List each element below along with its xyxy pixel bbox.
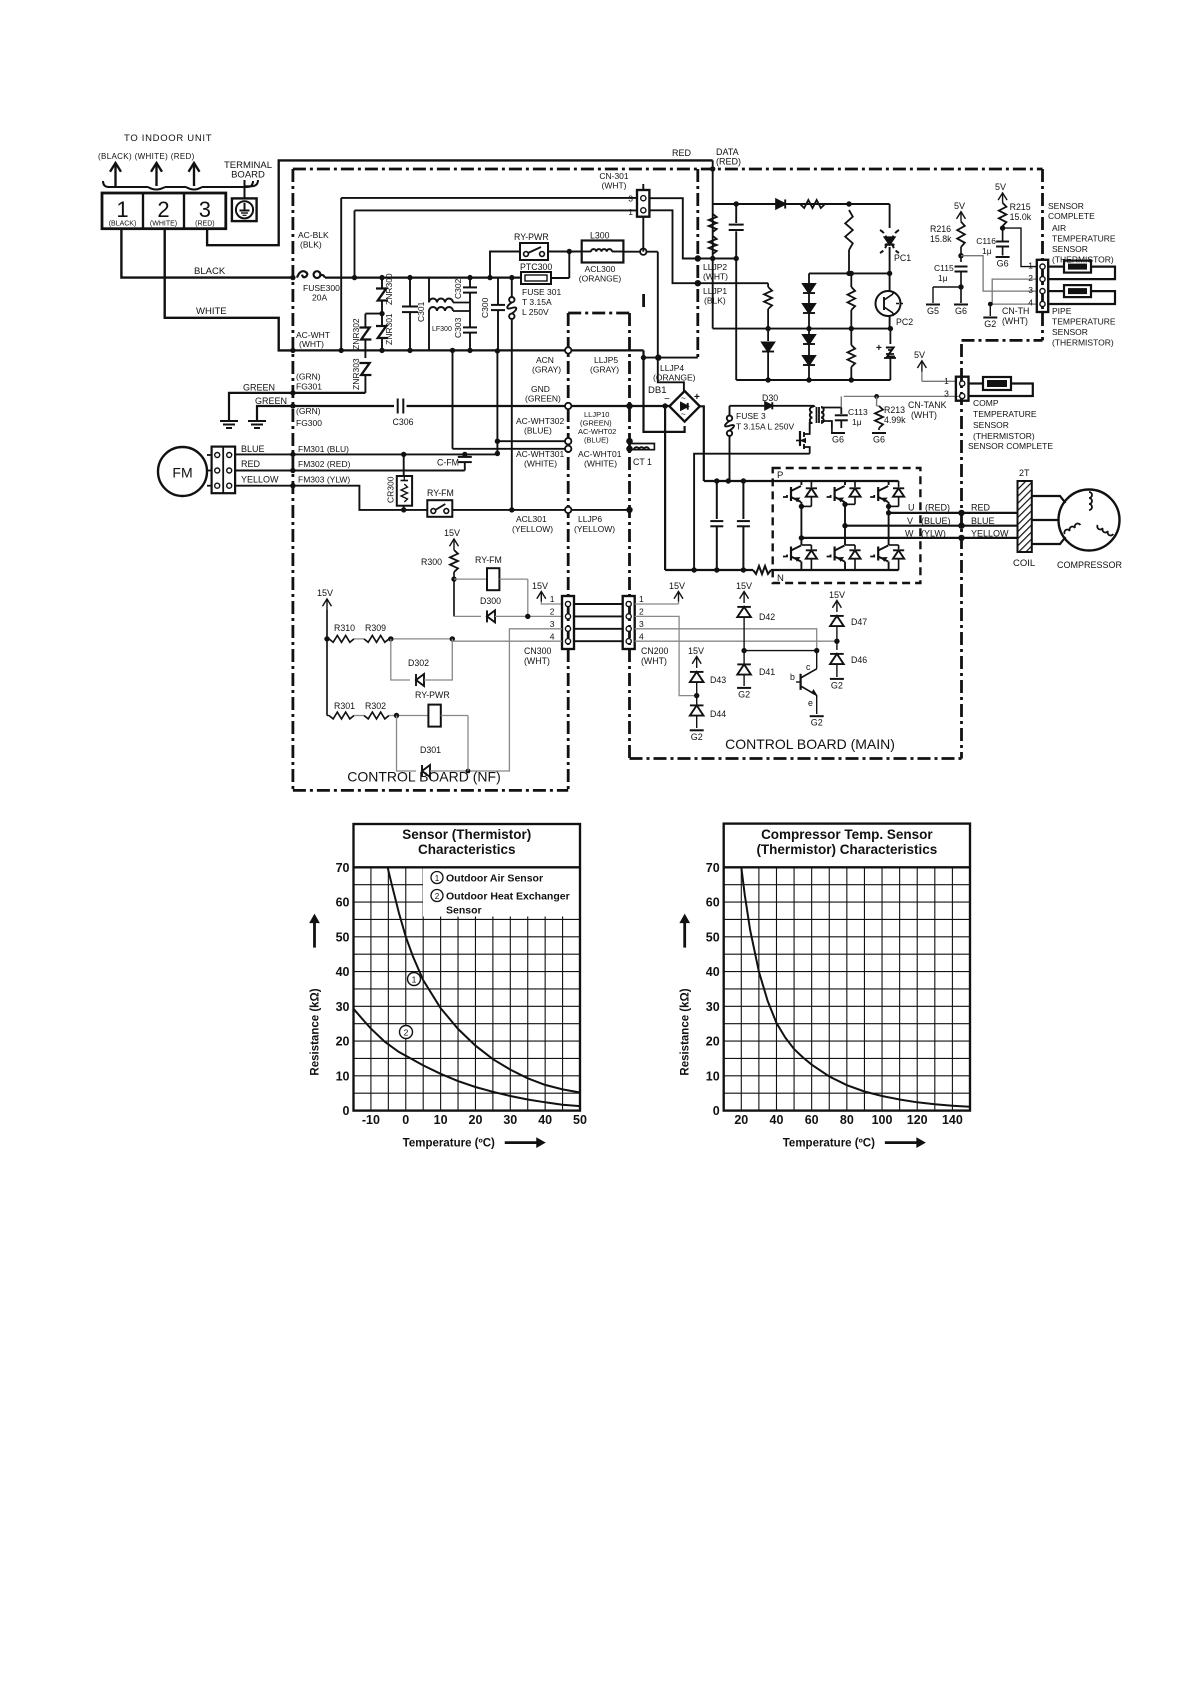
svg-text:C302: C302: [453, 278, 463, 299]
svg-text:Outdoor Air Sensor: Outdoor Air Sensor: [446, 873, 543, 885]
svg-text:C303: C303: [453, 317, 463, 338]
svg-text:GREEN: GREEN: [243, 383, 275, 393]
connector CN200: [623, 596, 635, 649]
mid PS bus: [713, 328, 891, 330]
bus P: [704, 480, 773, 482]
svg-text:+: +: [876, 343, 882, 354]
svg-text:FUSE300: FUSE300: [303, 283, 340, 293]
wire C113 to CN-TANK: [844, 395, 963, 397]
svg-text:2: 2: [639, 607, 644, 617]
svg-text:TEMPERATURE: TEMPERATURE: [1052, 317, 1116, 327]
control board NF border right: [567, 313, 570, 790]
capacitor C301: [409, 278, 411, 306]
svg-text:LLJP2: LLJP2: [703, 262, 727, 272]
svg-text:C115: C115: [934, 263, 954, 273]
svg-text:TO INDOOR UNIT: TO INDOOR UNIT: [124, 133, 212, 144]
svg-text:(ORANGE): (ORANGE): [579, 274, 622, 284]
wire AC-WHT bus: [293, 349, 568, 351]
svg-text:AC-WHT302: AC-WHT302: [516, 416, 564, 426]
svg-text:15V: 15V: [829, 590, 845, 600]
svg-text:D300: D300: [480, 596, 501, 606]
capacitor PS: [735, 204, 737, 223]
wire DB1 plus to P bus: [700, 406, 704, 481]
svg-text:RED: RED: [241, 459, 261, 469]
svg-text:60: 60: [805, 1113, 819, 1127]
wire BLACK bus after fuse: [325, 277, 521, 279]
gnd G2 transistor: [810, 715, 824, 717]
varistor ZNR302: [365, 313, 382, 315]
diode D44: [696, 696, 698, 705]
svg-text:Temperature (ºC): Temperature (ºC): [403, 1138, 495, 1150]
wire GND GREEN to LLJP10: [407, 405, 569, 407]
svg-text:40: 40: [336, 965, 350, 979]
svg-text:CN-TANK: CN-TANK: [908, 400, 947, 410]
wire R309 to CN300 pin4: [452, 639, 562, 641]
svg-text:D44: D44: [710, 709, 726, 719]
svg-text:1: 1: [628, 207, 633, 217]
svg-text:SENSOR: SENSOR: [1052, 327, 1088, 337]
svg-text:LLJP1: LLJP1: [703, 286, 727, 296]
svg-text:(THERMISTOR): (THERMISTOR): [1052, 255, 1114, 265]
svg-text:C300: C300: [480, 297, 490, 318]
wire GND to DB1: [568, 405, 670, 407]
capacitor C300: [497, 278, 499, 304]
inverter module box: [773, 468, 921, 583]
svg-text:1: 1: [116, 197, 128, 222]
svg-text:10: 10: [434, 1113, 448, 1127]
earth ground 1: [220, 420, 238, 422]
svg-text:BLUE: BLUE: [971, 516, 995, 526]
svg-text:100: 100: [872, 1113, 893, 1127]
svg-text:(WHT): (WHT): [299, 339, 324, 349]
svg-text:1: 1: [1028, 261, 1033, 271]
svg-text:PC1: PC1: [894, 253, 911, 263]
svg-text:(YLW): (YLW): [921, 528, 946, 538]
svg-text:D302: D302: [408, 658, 429, 668]
svg-text:G6: G6: [997, 259, 1009, 269]
pipe thermistor: [1048, 290, 1064, 292]
svg-text:RY-PWR: RY-PWR: [514, 232, 549, 242]
svg-text:2T: 2T: [1019, 468, 1030, 478]
svg-text:RY-PWR: RY-PWR: [415, 690, 450, 700]
svg-text:(WHT): (WHT): [703, 272, 728, 282]
svg-text:120: 120: [907, 1113, 928, 1127]
sensor box bottom border: [962, 339, 1043, 342]
diode LLJP1 chain: [762, 343, 774, 352]
svg-text:e: e: [808, 698, 813, 708]
svg-text:R309: R309: [365, 623, 386, 633]
graph frame: [724, 824, 970, 1111]
svg-text:(Thermistor) Characteristics: (Thermistor) Characteristics: [756, 842, 937, 857]
svg-text:FM302 (RED): FM302 (RED): [298, 459, 351, 469]
gnd G2 D41: [737, 687, 751, 689]
svg-text:20A: 20A: [312, 293, 327, 303]
svg-text:20: 20: [336, 1035, 350, 1049]
svg-text:AC-WHT301: AC-WHT301: [516, 449, 564, 459]
svg-text:BLUE: BLUE: [241, 444, 265, 454]
svg-text:R300: R300: [421, 557, 442, 567]
svg-text:(BLUE): (BLUE): [524, 426, 552, 436]
bus N: [665, 569, 753, 571]
node GND-DB1: [626, 403, 632, 409]
wire mosfet source return: [694, 454, 810, 570]
optocoupler PC2: [889, 273, 891, 291]
svg-text:4.99k: 4.99k: [884, 415, 906, 425]
current transformer CT1: [626, 438, 632, 444]
svg-text:(BLK): (BLK): [704, 296, 726, 306]
svg-text:3: 3: [639, 619, 644, 629]
svg-text:1: 1: [435, 874, 440, 883]
border stub near ACL300: [642, 294, 645, 311]
svg-text:COMP: COMP: [973, 398, 999, 408]
wire CN-301 pin1 feed: [354, 210, 356, 277]
wire top PS loop: [713, 203, 890, 205]
control board NF border left: [291, 169, 294, 790]
gnd G6 under C115: [954, 304, 968, 306]
wire LLJP2 bus: [698, 258, 736, 260]
indoor unit arrow 3: [193, 163, 195, 186]
svg-text:CR300: CR300: [386, 476, 396, 503]
indoor unit arrow 1: [114, 163, 116, 186]
diode D46: [836, 641, 838, 650]
wire L300 output to LLJP4: [623, 251, 657, 253]
resistor x849 upper: [845, 210, 853, 250]
svg-text:(YELLOW): (YELLOW): [574, 524, 615, 534]
svg-text:CN200: CN200: [641, 646, 668, 656]
IGBT W low: [877, 547, 879, 561]
inverter P rail: [773, 480, 899, 482]
svg-text:(GRN): (GRN): [296, 406, 321, 416]
svg-text:1: 1: [944, 376, 949, 386]
varistor ZNR303: [359, 363, 371, 375]
fuse FUSE3: [727, 416, 732, 421]
diode U low: [810, 545, 812, 549]
svg-text:PC2: PC2: [896, 317, 913, 327]
control board NF border bottom: [293, 789, 568, 792]
svg-text:LLJP6: LLJP6: [578, 514, 602, 524]
svg-text:3: 3: [1028, 285, 1033, 295]
svg-text:C306: C306: [392, 417, 413, 427]
wire ACL301 LLJP6 yellow: [452, 509, 629, 511]
svg-text:60: 60: [336, 896, 350, 910]
svg-text:COMPLETE: COMPLETE: [1048, 211, 1095, 221]
control board MAIN border left: [628, 313, 631, 759]
svg-text:GREEN: GREEN: [255, 396, 287, 406]
svg-text:TEMPERATURE: TEMPERATURE: [973, 409, 1037, 419]
resistor shunt N: [753, 566, 771, 574]
svg-text:ACN: ACN: [536, 355, 554, 365]
graph frame: [354, 824, 581, 1111]
transformer T: [813, 406, 815, 407]
svg-text:(BLUE): (BLUE): [584, 436, 609, 445]
svg-text:2: 2: [404, 1028, 409, 1038]
svg-text:50: 50: [706, 930, 720, 944]
svg-text:15V: 15V: [736, 581, 752, 591]
svg-text:R216: R216: [930, 224, 951, 234]
svg-text:Compressor Temp. Sensor: Compressor Temp. Sensor: [761, 827, 933, 842]
svg-text:3: 3: [550, 619, 555, 629]
svg-text:140: 140: [942, 1113, 963, 1127]
svg-text:(BLACK) (WHITE) (RED): (BLACK) (WHITE) (RED): [98, 152, 195, 161]
svg-text:ACL300: ACL300: [585, 264, 616, 274]
svg-text:G6: G6: [873, 435, 885, 445]
svg-text:1: 1: [639, 594, 644, 604]
svg-text:2: 2: [435, 892, 440, 901]
svg-text:-10: -10: [362, 1113, 380, 1127]
svg-text:FUSE 301: FUSE 301: [522, 287, 561, 297]
IGBT W high: [888, 481, 890, 485]
svg-text:AIR: AIR: [1052, 223, 1066, 233]
svg-text:(WHT): (WHT): [524, 656, 550, 666]
diode D43: [696, 667, 698, 669]
svg-text:FUSE 3: FUSE 3: [736, 411, 766, 421]
gnd G5: [933, 286, 961, 288]
zener to bottom bus: [889, 329, 891, 344]
svg-text:(WHITE): (WHITE): [150, 221, 177, 228]
diode V high: [854, 481, 856, 487]
svg-text:AC-WHT01: AC-WHT01: [578, 449, 622, 459]
svg-text:(BLUE): (BLUE): [921, 516, 951, 526]
svg-text:ZNR303: ZNR303: [351, 358, 361, 390]
svg-text:(GRAY): (GRAY): [590, 365, 619, 375]
top border: [293, 168, 1043, 171]
svg-text:ZNR301: ZNR301: [384, 313, 394, 345]
svg-text:G2: G2: [984, 319, 996, 329]
bottom PS bus: [736, 379, 890, 381]
svg-text:~: ~: [681, 394, 686, 403]
svg-text:R301: R301: [334, 701, 355, 711]
gnd G2 D46: [830, 678, 844, 680]
svg-text:U: U: [908, 503, 915, 513]
svg-text:FM: FM: [172, 465, 192, 481]
diode V low: [854, 545, 856, 549]
svg-text:(BLK): (BLK): [300, 240, 322, 250]
svg-text:RED: RED: [971, 503, 991, 513]
earth ground 2: [248, 420, 266, 422]
svg-text:YELLOW: YELLOW: [241, 475, 279, 485]
graph y axis title: [683, 923, 686, 948]
svg-text:T 3.15A L 250V: T 3.15A L 250V: [736, 422, 794, 432]
svg-text:10: 10: [336, 1069, 350, 1083]
wire CN-301 pin3 to LLJP2: [649, 198, 698, 258]
compressor motor: [1059, 490, 1120, 551]
svg-text:CONTROL BOARD (NF): CONTROL BOARD (NF): [347, 769, 500, 785]
wire LLJP1 to resistor: [698, 282, 768, 284]
svg-text:5V: 5V: [954, 201, 965, 211]
varistor ZNR301: [381, 314, 383, 326]
resistor PS top: [800, 200, 825, 208]
svg-text:1μ: 1μ: [938, 273, 948, 283]
svg-text:G2: G2: [831, 680, 843, 690]
svg-text:30: 30: [336, 1000, 350, 1014]
svg-text:Sensor (Thermistor): Sensor (Thermistor): [402, 827, 531, 842]
wire ACN to DB1: [644, 350, 685, 432]
resistor x851 lower: [850, 329, 852, 345]
jumper pads on MAIN border: [626, 403, 632, 409]
svg-text:0: 0: [402, 1113, 409, 1127]
svg-text:15.0k: 15.0k: [1010, 212, 1032, 222]
svg-text:15V: 15V: [317, 588, 333, 598]
svg-text:PTC300: PTC300: [520, 262, 552, 272]
svg-text:CN-301: CN-301: [599, 171, 629, 181]
svg-text:(BLACK): (BLACK): [109, 221, 137, 228]
svg-text:(WHT): (WHT): [601, 181, 626, 191]
svg-text:SENSOR: SENSOR: [1048, 201, 1084, 211]
svg-text:(GREEN): (GREEN): [525, 394, 561, 404]
diode in PS top: [776, 199, 785, 208]
svg-text:G2: G2: [811, 718, 823, 728]
svg-text:2: 2: [550, 607, 555, 617]
svg-text:(RED): (RED): [716, 157, 741, 167]
diode D41: [743, 651, 745, 664]
svg-text:G6: G6: [955, 306, 967, 316]
riser ACN to white wire: [452, 350, 454, 448]
svg-text:70: 70: [706, 861, 720, 875]
wire DATA RED vertical: [712, 160, 714, 328]
diode W low: [898, 545, 900, 549]
svg-text:15V: 15V: [532, 581, 548, 591]
svg-text:FG300: FG300: [296, 418, 322, 428]
sensor box right border: [1041, 169, 1044, 340]
svg-text:CN300: CN300: [524, 646, 551, 656]
svg-text:20: 20: [469, 1113, 483, 1127]
svg-text:0: 0: [343, 1104, 350, 1118]
svg-text:b: b: [790, 672, 795, 682]
fuse FUSE300: [297, 271, 307, 277]
svg-text:30: 30: [706, 1000, 720, 1014]
svg-text:3: 3: [944, 389, 949, 399]
wire RED from terminal 3: [207, 160, 713, 245]
svg-text:C113: C113: [848, 407, 868, 417]
terminal board stem: [244, 180, 246, 198]
wire D42 bottom to collector: [744, 650, 817, 652]
comp thermistor: [969, 382, 984, 384]
svg-text:+: +: [694, 392, 700, 403]
svg-text:C-FM: C-FM: [437, 458, 459, 468]
svg-text:50: 50: [573, 1113, 587, 1127]
svg-text:P: P: [777, 470, 783, 481]
svg-text:1: 1: [412, 975, 417, 985]
svg-text:(WHT): (WHT): [1002, 316, 1028, 326]
svg-text:WHITE: WHITE: [196, 306, 227, 317]
svg-text:Resistance (kΩ): Resistance (kΩ): [310, 988, 322, 1075]
svg-text:(THERMISTOR): (THERMISTOR): [1052, 338, 1114, 348]
svg-text:15.8k: 15.8k: [930, 234, 952, 244]
diode D42: [743, 602, 745, 604]
diode pair lower x809: [808, 329, 810, 334]
svg-text:V: V: [907, 516, 913, 526]
svg-text:Sensor: Sensor: [446, 905, 482, 917]
capacitor C306: [397, 399, 399, 414]
diode D47: [836, 611, 838, 613]
svg-text:C301: C301: [416, 301, 426, 322]
wire PC mid: [809, 272, 890, 274]
svg-text:PIPE: PIPE: [1052, 306, 1072, 316]
wire CN-TH pin2 ground: [992, 279, 1037, 304]
graph curve: [741, 867, 970, 1107]
svg-text:COMPRESSOR: COMPRESSOR: [1057, 560, 1123, 570]
svg-text:FG301: FG301: [296, 382, 322, 392]
wire CN200 pin4: [635, 640, 837, 642]
svg-text:SENSOR: SENSOR: [1052, 244, 1088, 254]
wire PS left vertical: [735, 259, 737, 381]
control board MAIN border right: [960, 344, 963, 759]
varistor ZNR300: [381, 278, 383, 289]
svg-text:(GRN): (GRN): [296, 372, 321, 382]
svg-text:CONTROL BOARD (MAIN): CONTROL BOARD (MAIN): [725, 736, 895, 752]
graph 1 legend: [431, 872, 443, 884]
svg-text:(YELLOW): (YELLOW): [512, 524, 553, 534]
gnd G6 under transformer: [831, 428, 833, 433]
indoor unit arrow 2: [155, 163, 157, 186]
svg-text:4: 4: [639, 632, 644, 642]
border notch between boards: [568, 312, 629, 315]
resistor x851 mid: [850, 273, 852, 287]
svg-text:(RED): (RED): [925, 503, 950, 513]
svg-text:40: 40: [538, 1113, 552, 1127]
svg-text:R310: R310: [334, 623, 355, 633]
svg-text:(WHT): (WHT): [641, 656, 667, 666]
svg-text:D301: D301: [420, 745, 441, 755]
svg-text:FM301 (BLU): FM301 (BLU): [298, 444, 349, 454]
wire LLJP4: [644, 357, 698, 359]
graph grid: [724, 867, 970, 1110]
svg-text:BOARD: BOARD: [231, 170, 265, 181]
terminal board symbol: [232, 198, 257, 221]
svg-text:TEMPERATURE: TEMPERATURE: [1052, 234, 1116, 244]
svg-text:15V: 15V: [688, 646, 704, 656]
svg-text:CN-TH: CN-TH: [1002, 306, 1029, 316]
capacitor C302: [469, 278, 471, 287]
svg-text:10: 10: [706, 1069, 720, 1083]
svg-text:BLACK: BLACK: [194, 266, 226, 277]
svg-text:L 250V: L 250V: [522, 307, 549, 317]
fuse FUSE301 thermal: [511, 278, 513, 297]
svg-text:C116: C116: [976, 236, 996, 246]
svg-text:70: 70: [336, 861, 350, 875]
wire CN200 pin3: [635, 629, 817, 651]
svg-text:LF300: LF300: [432, 326, 452, 333]
wire W phase: [801, 537, 1017, 539]
svg-text:G2: G2: [738, 689, 750, 699]
svg-text:20: 20: [706, 1035, 720, 1049]
graph y axis title: [313, 923, 316, 948]
capacitor C303: [463, 326, 477, 328]
svg-text:(THERMISTOR): (THERMISTOR): [973, 431, 1035, 441]
svg-text:LLJP5: LLJP5: [594, 355, 618, 365]
svg-text:Resistance (kΩ): Resistance (kΩ): [680, 988, 692, 1075]
svg-text:Outdoor Heat Exchanger: Outdoor Heat Exchanger: [446, 891, 570, 903]
svg-text:15V: 15V: [669, 581, 685, 591]
wire V phase: [845, 525, 1018, 527]
svg-text:3: 3: [628, 194, 633, 204]
svg-text:G6: G6: [832, 435, 844, 445]
svg-text:G5: G5: [927, 306, 939, 316]
svg-text:R302: R302: [365, 701, 386, 711]
svg-text:SENSOR COMPLETE: SENSOR COMPLETE: [968, 441, 1053, 451]
svg-text:2: 2: [1028, 273, 1033, 283]
svg-text:RY-FM: RY-FM: [475, 555, 502, 565]
svg-text:(WHITE): (WHITE): [524, 459, 557, 469]
wire R216 to CN-TH pin3: [961, 256, 1037, 291]
wire R215 to CN-TH pin1: [1003, 228, 1037, 267]
svg-text:20: 20: [734, 1113, 748, 1127]
riser C300 to blue wire: [496, 351, 498, 454]
svg-text:RED: RED: [672, 148, 692, 158]
svg-text:60: 60: [706, 896, 720, 910]
svg-text:(ORANGE): (ORANGE): [653, 373, 696, 383]
wire CN-301 pin1 to LLJP1: [649, 210, 698, 283]
